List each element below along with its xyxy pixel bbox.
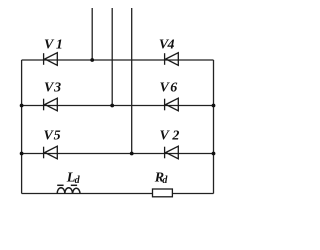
- svg-text:d: d: [75, 175, 81, 186]
- wire left bus: [21, 60, 23, 194]
- svg-text:d: d: [162, 175, 168, 186]
- wire middle row V3-V6: [22, 105, 214, 107]
- svg-text:6: 6: [170, 81, 177, 96]
- svg-text:3: 3: [53, 81, 61, 96]
- wire lower row V5-V2: [22, 153, 214, 155]
- svg-text:2: 2: [171, 129, 179, 144]
- node dot left bus lower row: [20, 152, 24, 156]
- node dot right bus middle row: [212, 104, 216, 108]
- node dot phase b / middle row: [110, 104, 114, 108]
- svg-text:4: 4: [167, 38, 175, 53]
- node dot right bus lower row: [212, 152, 216, 156]
- thyristor V1: [44, 53, 58, 66]
- svg-text:V: V: [44, 38, 55, 53]
- phase line c: [131, 8, 133, 154]
- svg-text:V: V: [160, 81, 171, 96]
- node dot phase c / lower row: [130, 152, 134, 156]
- thyristor V3: [44, 98, 58, 111]
- resistor Rd: [153, 189, 173, 197]
- thyristor V5: [44, 146, 58, 159]
- node dot left bus middle row: [20, 104, 24, 108]
- thyristor V6: [165, 98, 179, 111]
- phase line a: [91, 8, 93, 60]
- wire bottom: [22, 193, 214, 195]
- wire right bus: [213, 60, 215, 194]
- wire top row V1-V4: [22, 59, 214, 61]
- svg-text:5: 5: [54, 129, 61, 144]
- svg-text:1: 1: [56, 38, 63, 53]
- svg-text:V: V: [160, 129, 171, 144]
- thyristor V2: [165, 146, 179, 159]
- phase line b: [111, 8, 113, 106]
- node dot phase a / top row: [90, 58, 94, 62]
- inductor Ld: [57, 188, 80, 194]
- inductor core dashes: [57, 184, 77, 186]
- thyristor V4: [165, 53, 179, 66]
